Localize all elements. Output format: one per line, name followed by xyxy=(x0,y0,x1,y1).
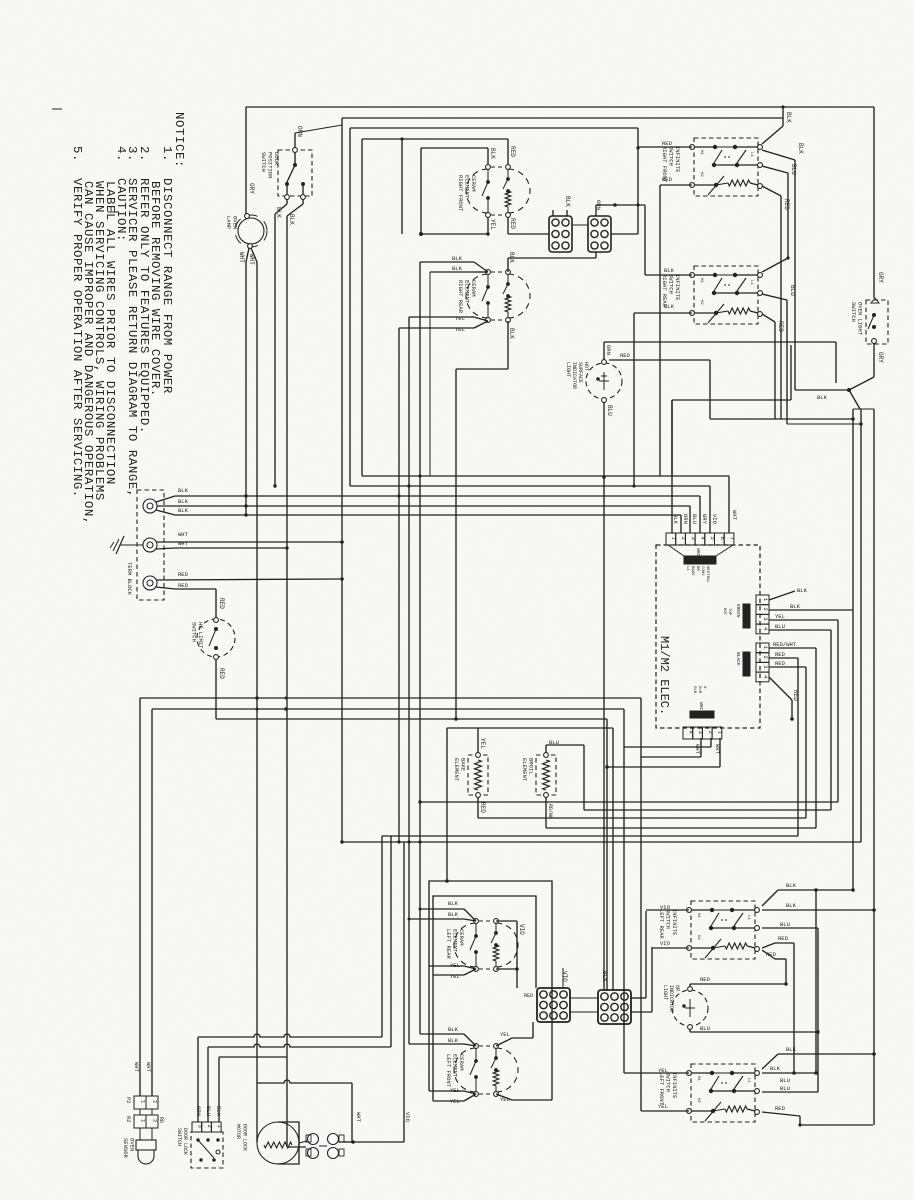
svg-text:H1: H1 xyxy=(696,913,700,918)
wire term WHT fan2 xyxy=(156,548,175,549)
connector C3 xyxy=(537,988,570,1022)
oven light switch box xyxy=(866,300,888,344)
wire C4 right a xyxy=(631,997,646,999)
junction lr vio xyxy=(515,967,519,971)
svg-text:BLU: BLU xyxy=(700,1025,710,1032)
svg-text:BLK: BLK xyxy=(452,265,463,272)
broil element box xyxy=(536,755,556,795)
bake element xyxy=(476,753,481,758)
svg-text:LEFT FRONT: LEFT FRONT xyxy=(658,1072,665,1106)
wire term WHT fan1 xyxy=(157,541,342,543)
wire x816 drop xyxy=(815,890,817,1073)
wire rail y118 xyxy=(342,117,783,119)
CC black bar xyxy=(690,711,714,718)
wire broil top BLU xyxy=(545,745,547,753)
wire hsl ORN up xyxy=(603,342,605,360)
wire door switch BLK drop B xyxy=(302,199,304,204)
svg-text:BLK: BLK xyxy=(448,1037,459,1044)
svg-text:RED: RED xyxy=(777,321,784,332)
wire RED to hi limit xyxy=(215,589,217,617)
svg-text:RED: RED xyxy=(662,176,673,183)
connector C1 stubs xyxy=(552,210,554,216)
connector R2 xyxy=(134,1115,146,1128)
P1 black bar xyxy=(684,556,716,564)
wire lf top-right xyxy=(496,1038,512,1046)
svg-text:WHITE: WHITE xyxy=(698,702,704,716)
term block terminal 1 xyxy=(143,499,157,513)
infinite switch right rear xyxy=(694,266,758,324)
wire x613 drop xyxy=(612,728,614,990)
wire rail xC xyxy=(873,409,875,1125)
broil element xyxy=(544,753,549,758)
wire rail left x342 xyxy=(341,118,343,842)
wire isw-rf P RED xyxy=(762,186,781,196)
wire staircase y1037 xyxy=(198,1034,382,1037)
svg-text:BLK: BLK xyxy=(785,112,792,123)
wire loop left inner xyxy=(433,896,536,988)
wire H1 y515 xyxy=(175,514,681,516)
wire x638 drop xyxy=(637,128,639,234)
wire dls pin1 xyxy=(218,1057,220,1122)
wire H1 y476 xyxy=(362,475,729,477)
svg-text:BLK: BLK xyxy=(448,900,459,907)
svg-text:WHT: WHT xyxy=(694,744,701,755)
svg-text:7: 7 xyxy=(729,537,736,540)
svg-text:SWITCH: SWITCH xyxy=(260,152,267,172)
svg-text:LIGHT: LIGHT xyxy=(662,985,668,1000)
svg-text:3: 3 xyxy=(690,537,697,540)
wire door switch BLK drop A xyxy=(286,199,288,204)
svg-text:YEL: YEL xyxy=(450,973,460,980)
svg-text:RED: RED xyxy=(775,651,786,658)
svg-text:H2: H2 xyxy=(696,1098,700,1103)
svg-text:2: 2 xyxy=(152,1100,159,1103)
svg-text:2: 2 xyxy=(707,731,714,734)
svg-text:WHT: WHT xyxy=(178,531,189,538)
wire ORN door switch xyxy=(294,133,296,148)
wire y728 bake feed xyxy=(447,727,613,729)
wire H1 y486 xyxy=(350,485,710,487)
svg-text:WHT: WHT xyxy=(145,1062,152,1073)
infinite switch left front xyxy=(691,1064,755,1122)
svg-text:BLK: BLK xyxy=(770,1065,781,1072)
wire isw-lr H2 xyxy=(652,947,689,949)
wire C1 to C2 link xyxy=(572,224,588,226)
junction y802 xyxy=(418,800,421,803)
wire C2 top xyxy=(595,205,597,216)
wire OR top RED xyxy=(689,984,691,987)
svg-text:L1: L1 xyxy=(685,566,689,571)
junction hsl blu xyxy=(602,475,606,479)
svg-text:RED/WHT: RED/WHT xyxy=(773,641,797,648)
wire lf top-left B xyxy=(464,1044,476,1046)
wire isw-rf H2 xyxy=(660,184,692,186)
term block box xyxy=(137,490,164,600)
wire ols top xyxy=(873,107,875,298)
wire rail xB xyxy=(860,409,862,842)
CA black bar xyxy=(743,604,750,628)
wire lamp WHT drop B xyxy=(251,248,257,262)
svg-text:H2: H2 xyxy=(699,172,703,177)
wire bake bottom RED xyxy=(477,797,479,818)
svg-text:WHT: WHT xyxy=(248,254,255,265)
wire x257 vertical xyxy=(256,698,258,1083)
svg-text:YEL: YEL xyxy=(658,1103,668,1110)
CB black bar xyxy=(743,652,750,676)
svg-text:3: 3 xyxy=(196,1125,203,1128)
scan mark xyxy=(52,108,62,110)
wire isw-rr H1 xyxy=(644,205,646,275)
svg-text:ELEMENT: ELEMENT xyxy=(453,758,460,782)
wire lf bot-left B xyxy=(464,1094,476,1101)
oven sensor xyxy=(139,1128,141,1140)
svg-text:RED: RED xyxy=(178,582,189,589)
wire term BLK fan3 xyxy=(156,510,175,515)
wire isw-lf row1 BLK xyxy=(762,1072,816,1074)
wire BLK right horiz xyxy=(795,389,849,391)
wire y836 xyxy=(382,835,798,837)
svg-text:WHITE: WHITE xyxy=(695,548,701,562)
oven lamp xyxy=(238,218,264,244)
svg-text:VIO: VIO xyxy=(711,514,718,525)
svg-text:2: 2 xyxy=(206,1125,213,1128)
svg-text:RED: RED xyxy=(509,218,516,229)
svg-text:BLK: BLK xyxy=(797,143,804,154)
wire staircase y1047 xyxy=(208,1044,391,1047)
svg-text:ORN: ORN xyxy=(296,126,303,137)
wire isw-lr row1 BLK xyxy=(762,909,874,911)
svg-text:BLK: BLK xyxy=(489,148,496,159)
svg-text:H2: H2 xyxy=(699,300,703,305)
svg-text:SWITCH: SWITCH xyxy=(850,302,857,322)
wire diag right 2 xyxy=(849,390,860,409)
connector CA pins xyxy=(756,595,769,605)
wire x391 drop xyxy=(390,836,392,1047)
wire P5 out xyxy=(339,1141,353,1143)
svg-text:L1: L1 xyxy=(746,915,750,920)
junction CB4 xyxy=(790,717,794,721)
svg-text:SENSOR: SENSOR xyxy=(122,1138,129,1159)
door position switch top terminal xyxy=(293,148,298,153)
wire term RED fan2 xyxy=(156,587,175,589)
svg-text:RED: RED xyxy=(218,668,225,679)
svg-text:RED: RED xyxy=(783,199,790,210)
svg-text:YEL: YEL xyxy=(489,219,496,230)
wire WHT p5 h xyxy=(257,1080,352,1083)
wire motor left xyxy=(256,1083,258,1142)
svg-text:BOT: BOT xyxy=(722,608,726,616)
junction rf xyxy=(419,232,423,236)
wire CB pin4 RED diag xyxy=(769,677,792,700)
svg-text:YEL: YEL xyxy=(455,315,465,322)
svg-text:BLK: BLK xyxy=(790,603,801,610)
infinite switch left rear xyxy=(691,901,755,959)
wire rail y128 xyxy=(350,127,638,129)
wire isw-lr P RED down xyxy=(762,950,775,959)
svg-text:BR: BR xyxy=(695,566,699,571)
svg-text:BAKE: BAKE xyxy=(690,566,694,576)
hi limit switch circle xyxy=(197,619,235,657)
wire isw-lf row2 BLU xyxy=(762,1091,818,1093)
door lock motor xyxy=(257,1122,299,1164)
bake element box xyxy=(468,755,488,795)
svg-text:WHT: WHT xyxy=(178,540,189,547)
wire isw-rf H1 xyxy=(638,146,692,148)
door lock switch contacts xyxy=(196,1138,199,1141)
wire H3 y719 xyxy=(216,718,607,720)
svg-text:VIO: VIO xyxy=(518,924,525,935)
wire term BLK fan2 xyxy=(157,505,175,507)
connector P5 pair1 xyxy=(308,1134,319,1145)
junction WHT x342 xyxy=(340,540,344,544)
wire CB pin2 RED xyxy=(769,657,798,659)
wire rr top-left B xyxy=(474,271,488,273)
wire BLK mid right xyxy=(672,399,791,401)
svg-text:GRY: GRY xyxy=(877,272,884,283)
svg-text:WHT: WHT xyxy=(133,1062,140,1073)
wire broil bottom xyxy=(545,797,547,828)
wire loop left outer xyxy=(429,881,552,1060)
svg-text:LIGHT: LIGHT xyxy=(565,362,571,377)
svg-text:RED: RED xyxy=(766,951,777,958)
svg-text:WHT: WHT xyxy=(238,252,245,263)
wire lr bot-left B xyxy=(464,969,476,975)
connector CB pins xyxy=(756,643,769,653)
OR indicator light xyxy=(672,990,708,1026)
svg-text:GRY: GRY xyxy=(877,352,884,363)
wire lr top-left A xyxy=(464,909,476,921)
wire rr top-right xyxy=(507,258,509,272)
svg-text:BLACK: BLACK xyxy=(735,652,741,666)
wire dls pin2 xyxy=(207,1047,209,1122)
wire CA pin3 YEL xyxy=(769,619,838,621)
wire P2 to R2 a xyxy=(139,1109,141,1115)
svg-text:TERM BLOCK: TERM BLOCK xyxy=(126,562,133,596)
svg-text:5: 5 xyxy=(709,537,716,540)
connector CC pins xyxy=(683,727,693,739)
svg-text:BLK: BLK xyxy=(275,207,282,218)
svg-text:RED: RED xyxy=(620,352,631,359)
wire isw-lr H1 xyxy=(646,909,689,911)
wire WHT p5 up xyxy=(351,1083,353,1142)
wire dls pin3 xyxy=(197,1037,199,1122)
svg-text:RED: RED xyxy=(778,935,789,942)
wire rf top-left xyxy=(487,148,489,164)
door position switch box xyxy=(278,150,312,196)
wire L1 rail left upper xyxy=(245,107,247,214)
wire BLK pin1 drop xyxy=(671,400,673,533)
wire isw-lf P RED xyxy=(762,1112,800,1116)
svg-text:SWITCH: SWITCH xyxy=(176,1128,182,1146)
ceramic element right rear xyxy=(466,274,488,318)
wire rail left x350 xyxy=(349,128,351,486)
svg-text:L1: L1 xyxy=(746,1078,750,1083)
svg-text:H2: H2 xyxy=(696,935,700,940)
door lock switch pins xyxy=(192,1122,202,1132)
svg-text:RED: RED xyxy=(218,598,225,609)
svg-text:BLK: BLK xyxy=(564,196,571,207)
wire isw-rr L1 xyxy=(762,258,788,272)
wire CA pin2 BLK xyxy=(769,609,853,611)
junction RED x342 xyxy=(340,577,344,581)
wire CB pin3 RED xyxy=(769,666,806,668)
wire isw-rr BLU xyxy=(762,294,787,300)
svg-text:BLU: BLU xyxy=(789,285,796,296)
door lock switch box xyxy=(191,1132,223,1168)
svg-text:BLK: BLK xyxy=(797,587,808,594)
wire lf bot-right xyxy=(496,1094,512,1100)
wire RED from hi limit xyxy=(215,660,217,719)
svg-text:BLK: BLK xyxy=(288,214,295,225)
infinite switch right front xyxy=(694,138,758,196)
connector P2 xyxy=(134,1096,146,1109)
wire lf top-left A xyxy=(464,1034,476,1046)
connector P5 pair2 xyxy=(328,1134,339,1145)
svg-text:DOOR LOCK: DOOR LOCK xyxy=(242,1124,248,1151)
svg-text:BLK: BLK xyxy=(452,255,463,262)
hot surface indicator light xyxy=(586,363,622,399)
wire term BLK fan1 xyxy=(156,496,175,502)
wire H1 y496 xyxy=(175,495,700,497)
svg-text:TOP: TOP xyxy=(727,608,731,616)
wire L1 rail top xyxy=(246,106,874,108)
wire rr bot-left A xyxy=(474,317,488,321)
svg-text:YEL: YEL xyxy=(455,326,465,333)
svg-text:RED: RED xyxy=(178,571,189,578)
wire bake top xyxy=(477,728,479,753)
wire ols bottom xyxy=(873,343,875,377)
svg-text:BLU: BLU xyxy=(780,921,790,928)
wire OR bottom BLU xyxy=(689,1029,691,1032)
wire rail top joins xyxy=(853,408,874,410)
wire rr bot-left B xyxy=(474,321,488,328)
junction y842 xyxy=(397,840,400,843)
wire lr bot-right xyxy=(496,968,517,970)
wire hsl BLU down xyxy=(603,402,605,990)
wire loop rf outer xyxy=(401,139,403,234)
wire isw-lf L1 BLK xyxy=(762,1054,778,1069)
svg-text:RED: RED xyxy=(509,146,516,157)
svg-text:BLK: BLK xyxy=(664,267,675,274)
wire H3 y698 xyxy=(140,697,641,699)
wire lr top-left B xyxy=(464,919,476,921)
svg-text:RED: RED xyxy=(775,1105,786,1112)
svg-text:ORN: ORN xyxy=(605,345,612,355)
svg-text:VIO: VIO xyxy=(404,1112,411,1123)
junction rr blk xyxy=(454,717,458,721)
svg-text:BLK: BLK xyxy=(178,498,189,505)
wire rr bot-right BLK xyxy=(507,321,509,369)
junction right diag xyxy=(847,388,851,392)
wire isw-lr row2 BLU xyxy=(762,927,818,929)
wire x447 drop xyxy=(446,728,448,881)
wire lamp WHT drop A xyxy=(246,248,249,262)
svg-text:GREEN: GREEN xyxy=(735,604,741,618)
term block terminal 3 xyxy=(143,576,157,590)
svg-text:RED: RED xyxy=(775,660,786,667)
svg-text:GRY: GRY xyxy=(701,514,708,525)
svg-text:BLK: BLK xyxy=(786,902,797,909)
svg-text:BLK: BLK xyxy=(786,1046,797,1053)
wire isw-lf H2 xyxy=(641,1110,689,1112)
junction C2 top xyxy=(613,203,617,207)
wire isw-rf L1 BLK xyxy=(762,126,783,144)
svg-text:LEFT FRONT: LEFT FRONT xyxy=(445,1054,452,1088)
svg-text:ELEMENT: ELEMENT xyxy=(521,758,528,782)
wire isw-lr P RED up xyxy=(762,943,775,948)
wire C2 right xyxy=(611,233,638,235)
svg-text:WHT: WHT xyxy=(355,1112,362,1123)
svg-text:RED: RED xyxy=(700,976,711,983)
wire CB pin1 REDWHT xyxy=(769,647,816,649)
wire C4 top stub xyxy=(603,975,605,990)
wire CA pin4 BLU xyxy=(769,629,831,631)
wire lr bot-left A xyxy=(464,966,476,969)
ceramic element right front xyxy=(466,169,488,213)
svg-text:3: 3 xyxy=(762,665,769,668)
wire y802 xyxy=(420,801,838,803)
wire rf top-right xyxy=(507,139,509,164)
door position switch contacts xyxy=(294,152,296,164)
wire rail xA xyxy=(852,409,854,890)
svg-text:BLU: BLU xyxy=(780,1077,790,1084)
svg-text:VIO: VIO xyxy=(561,971,568,982)
wire isw-rf BLU xyxy=(762,166,788,173)
svg-text:RED: RED xyxy=(662,140,673,147)
connector C1 xyxy=(549,216,572,252)
wire rail left x362 xyxy=(361,139,363,476)
svg-text:BLU: BLU xyxy=(691,514,698,524)
svg-text:R2: R2 xyxy=(125,1116,132,1123)
svg-text:3: 3 xyxy=(697,731,704,734)
wire H1 y506 xyxy=(175,505,690,507)
wire lr top-right VIO xyxy=(496,920,517,922)
wire staircase y1057 xyxy=(219,1056,287,1058)
wire bottom right join xyxy=(800,1124,873,1126)
svg-text:BLU: BLU xyxy=(790,164,797,175)
svg-text:GRY: GRY xyxy=(248,183,255,194)
wire isw-lf H1 xyxy=(624,1072,689,1074)
svg-text:2: 2 xyxy=(680,537,687,540)
svg-text:RIGHT FRONT: RIGHT FRONT xyxy=(457,175,464,212)
svg-text:CONV: CONV xyxy=(700,566,704,576)
wire y842 xyxy=(342,841,861,843)
wire VIO drop xyxy=(403,842,405,1142)
wire P2 to R2 b xyxy=(151,1109,153,1115)
svg-text:RED: RED xyxy=(792,690,799,701)
oven light switch symbol xyxy=(871,298,879,303)
svg-text:P2: P2 xyxy=(125,1097,132,1104)
connector C4 xyxy=(598,990,631,1024)
svg-text:BLK: BLK xyxy=(664,303,675,310)
wire C3-C4 link a xyxy=(570,997,598,999)
wire hsl RED right xyxy=(609,359,710,361)
term block terminal 2 xyxy=(143,538,157,552)
scan mark 2 xyxy=(108,211,118,213)
connector C2 xyxy=(588,216,611,252)
svg-text:SWITCH: SWITCH xyxy=(191,622,198,642)
ceramic element left rear xyxy=(454,923,476,967)
svg-text:BLK: BLK xyxy=(786,882,797,889)
svg-text:RD/WH: RD/WH xyxy=(547,804,553,819)
wire C3 top stub xyxy=(562,968,564,988)
hi limit terminals xyxy=(214,618,219,623)
svg-text:3: 3 xyxy=(762,617,769,620)
svg-text:5. VERIFY PROPER OPERATION AF: 5. VERIFY PROPER OPERATION AFTER SERVICI… xyxy=(70,146,84,498)
wire rf bot-left xyxy=(487,217,489,234)
svg-text:WHT: WHT xyxy=(731,510,738,521)
svg-text:BLU: BLU xyxy=(780,1085,790,1092)
